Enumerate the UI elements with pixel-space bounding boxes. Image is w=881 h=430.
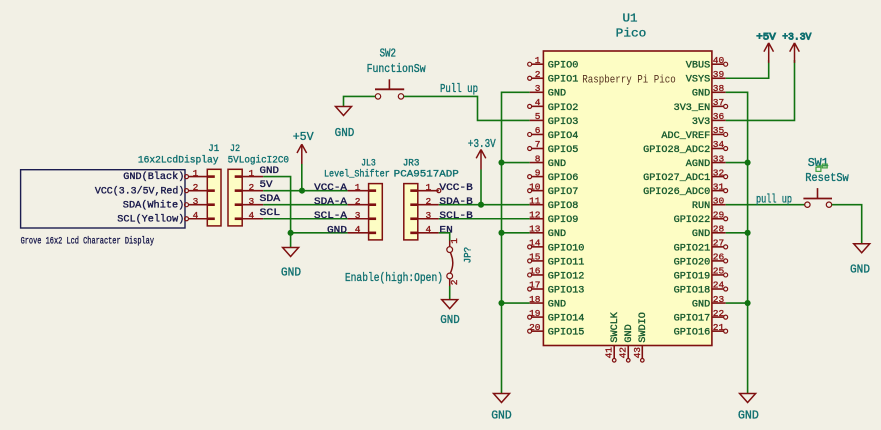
svg-text:3: 3 — [193, 196, 199, 207]
svg-text:SWDIO: SWDIO — [638, 312, 649, 343]
svg-text:43: 43 — [632, 347, 643, 359]
U1 pin 37 3V3_EN — [712, 105, 724, 107]
svg-text:GPIO21: GPIO21 — [674, 243, 711, 254]
svg-text:2: 2 — [193, 182, 199, 193]
ground symbol below J2 — [283, 248, 299, 257]
U1 pin 25 GPIO19 — [712, 274, 724, 276]
U1 pin 20 GPIO15 — [531, 330, 543, 332]
power +3.3V (top right) — [790, 43, 800, 63]
U1 pin 14 GPIO10 — [531, 246, 543, 248]
wire 3V3 to +3.3V — [726, 60, 795, 120]
connector J1 16x2LcdDisplay — [207, 169, 221, 226]
svg-text:JR3: JR3 — [403, 159, 420, 170]
svg-text:27: 27 — [713, 238, 724, 249]
svg-text:2: 2 — [449, 279, 460, 285]
JL3 pin 2 — [348, 204, 369, 206]
svg-text:17: 17 — [529, 280, 540, 291]
svg-text:29: 29 — [713, 209, 725, 220]
U1 pin 10 GPIO7 — [531, 190, 543, 192]
svg-text:23: 23 — [713, 294, 725, 305]
U1 pin 38 GND — [712, 91, 726, 93]
svg-text:GPIO26_ADC0: GPIO26_ADC0 — [643, 187, 710, 198]
svg-text:GPIO20: GPIO20 — [674, 257, 711, 268]
JR3 pin 4 — [418, 232, 439, 234]
svg-text:41: 41 — [604, 347, 615, 359]
svg-text:AGND: AGND — [686, 159, 710, 170]
JL3 pin 1 — [348, 190, 369, 192]
U1 pin 19 GPIO14 — [531, 316, 543, 318]
svg-text:GND: GND — [548, 89, 566, 100]
svg-text:GPIO5: GPIO5 — [548, 145, 579, 156]
U1 pin 30 RUN — [712, 204, 726, 206]
svg-text:J1: J1 — [208, 144, 219, 155]
J1 pin 2 — [189, 190, 207, 192]
svg-text:GPIO11: GPIO11 — [548, 257, 585, 268]
svg-text:20: 20 — [529, 322, 541, 333]
ground symbol below SW1 — [854, 244, 870, 253]
svg-text:4: 4 — [355, 224, 361, 235]
wire jumper to gnd — [449, 286, 451, 300]
junction GND/JL3 — [288, 230, 294, 236]
U1 pin 13 GND — [530, 232, 544, 234]
wire U1 pin3 GND — [502, 92, 530, 393]
svg-text:18: 18 — [529, 294, 541, 305]
right GND bus — [726, 92, 748, 393]
svg-text:GPIO1: GPIO1 — [548, 75, 579, 86]
svg-text:GPIO17: GPIO17 — [674, 314, 711, 325]
svg-text:2: 2 — [249, 182, 255, 193]
svg-text:3: 3 — [249, 196, 255, 207]
wire SW2 to GND — [344, 96, 376, 106]
svg-text:SW2: SW2 — [380, 47, 396, 61]
wire EN to jumper — [439, 233, 450, 241]
JR3 pin1 open circle — [437, 189, 441, 193]
svg-text:25: 25 — [713, 266, 725, 277]
svg-text:SCL: SCL — [260, 208, 281, 219]
U1 pin 35 ADC_VREF — [712, 133, 724, 135]
svg-text:GPIO2: GPIO2 — [548, 103, 579, 114]
wire RUN to SW1 — [726, 204, 805, 206]
svg-text:GPIO16: GPIO16 — [674, 328, 711, 339]
svg-text:3: 3 — [426, 210, 432, 221]
ground symbol bottom right — [740, 394, 756, 403]
U1 pin 32 GPIO27_ADC1 — [712, 176, 724, 178]
LCD display graphic box — [21, 170, 185, 228]
J2 pin 3 — [242, 204, 263, 206]
IC U1 Raspberry Pi Pico — [543, 51, 712, 346]
U1 pin 18 GND — [530, 302, 544, 304]
U1 pin 24 GPIO18 — [712, 288, 724, 290]
svg-text:EN: EN — [439, 225, 452, 236]
svg-text:GND(Black): GND(Black) — [123, 171, 184, 183]
U1 pin 34 GPIO28_ADC2 — [712, 148, 724, 150]
svg-text:Raspberry Pi Pico: Raspberry Pi Pico — [582, 74, 675, 86]
svg-text:+3.3V: +3.3V — [782, 32, 812, 44]
svg-text:16x2LcdDisplay: 16x2LcdDisplay — [138, 154, 219, 166]
svg-text:GND: GND — [692, 229, 710, 240]
svg-text:1: 1 — [449, 238, 460, 244]
U1 pin 6 GPIO4 — [531, 133, 543, 135]
svg-text:GND: GND — [335, 126, 355, 140]
svg-text:33: 33 — [713, 153, 725, 164]
JR3 pin 2 — [418, 204, 439, 206]
wire 5V row — [263, 190, 347, 192]
svg-text:SWCLK: SWCLK — [610, 312, 621, 343]
svg-text:37: 37 — [713, 97, 724, 108]
U1 pin 12 GPIO9 — [530, 218, 544, 220]
svg-text:5VLogicI2C0: 5VLogicI2C0 — [228, 154, 289, 166]
svg-text:3V3_EN: 3V3_EN — [674, 103, 711, 114]
U1 pin 17 GPIO13 — [531, 288, 543, 290]
U1 pin 41 SWCLK — [613, 346, 615, 359]
svg-text:39: 39 — [713, 69, 725, 80]
svg-text:pull up: pull up — [756, 193, 792, 207]
svg-text:SDA(White): SDA(White) — [123, 199, 185, 211]
connector JL3 Level_Shifter — [369, 184, 383, 240]
svg-text:GND: GND — [491, 409, 512, 423]
JL3 pin 3 — [348, 218, 369, 220]
svg-text:GPIO19: GPIO19 — [674, 271, 711, 282]
svg-text:1: 1 — [535, 55, 541, 66]
U1 pin 28 GND — [712, 232, 726, 234]
svg-text:Pico: Pico — [616, 27, 647, 41]
jumper JP? open — [449, 241, 451, 247]
svg-text:42: 42 — [618, 347, 629, 359]
junction pin8 GND bus — [498, 160, 504, 166]
ground symbol below SW2 — [336, 107, 352, 116]
svg-text:1: 1 — [193, 168, 199, 179]
svg-text:Level_Shifter: Level_Shifter — [324, 168, 390, 180]
svg-text:4: 4 — [535, 97, 541, 108]
U1 pin 42 GND — [627, 346, 629, 359]
ground symbol bottom left — [494, 394, 510, 403]
svg-text:GND: GND — [281, 265, 301, 279]
svg-text:34: 34 — [713, 139, 725, 150]
U1 pin 9 GPIO6 — [531, 176, 543, 178]
svg-text:1: 1 — [249, 168, 255, 179]
U1 pin 1 GPIO0 — [531, 63, 543, 65]
svg-text:36: 36 — [713, 111, 725, 122]
svg-text:40: 40 — [713, 55, 725, 66]
U1 pin 39 VSYS — [712, 77, 726, 79]
svg-text:SDA: SDA — [260, 194, 281, 205]
U1 pin 3 GND — [530, 91, 544, 93]
U1 pin 36 3V3 — [712, 119, 726, 121]
U1 pin 22 GPIO17 — [712, 316, 724, 318]
U1 pin 40 VBUS — [712, 63, 724, 65]
svg-text:3: 3 — [355, 210, 361, 221]
svg-text:38: 38 — [713, 83, 725, 94]
svg-text:2: 2 — [355, 196, 361, 207]
wire pin23 GND — [726, 302, 748, 304]
svg-text:GND: GND — [692, 299, 710, 310]
svg-text:12: 12 — [529, 209, 541, 220]
U1 pin 26 GPIO20 — [712, 260, 724, 262]
J2 pin 4 — [242, 218, 263, 220]
svg-text:GND: GND — [738, 409, 759, 423]
svg-text:ResetSw: ResetSw — [805, 171, 849, 185]
junction AGND bus — [745, 160, 751, 166]
junction pin23 GND bus — [745, 300, 751, 306]
svg-text:J2: J2 — [230, 144, 240, 155]
svg-text:35: 35 — [713, 125, 725, 136]
svg-text:+3.3V: +3.3V — [468, 137, 496, 151]
wire J2.1 GND to GND symbol — [263, 177, 290, 248]
svg-text:5V: 5V — [260, 180, 273, 191]
wire U1 pin13 GND — [502, 232, 530, 234]
svg-text:14: 14 — [529, 238, 541, 249]
U1 pin 15 GPIO11 — [531, 260, 543, 262]
U1 pin 7 GPIO5 — [531, 148, 543, 150]
svg-text:GPIO7: GPIO7 — [548, 187, 579, 198]
svg-text:3V3: 3V3 — [692, 117, 710, 128]
svg-text:4: 4 — [193, 210, 199, 221]
svg-text:6: 6 — [535, 125, 541, 136]
svg-text:GND: GND — [548, 159, 566, 170]
svg-text:22: 22 — [713, 308, 725, 319]
svg-text:GND: GND — [440, 313, 460, 327]
ground symbol below jumper — [442, 300, 458, 309]
svg-text:GPIO9: GPIO9 — [548, 215, 579, 226]
U1 pin 43 SWDIO — [641, 346, 643, 359]
svg-text:SCL(Yellow): SCL(Yellow) — [117, 213, 184, 225]
svg-text:VSYS: VSYS — [686, 75, 710, 86]
U1 pin 11 GPIO8 — [530, 204, 544, 206]
svg-text:9: 9 — [535, 167, 541, 178]
svg-text:Pull up: Pull up — [440, 82, 478, 96]
U1 pin 29 GPIO22 — [712, 218, 724, 220]
svg-text:10: 10 — [529, 181, 541, 192]
svg-text:GPIO0: GPIO0 — [548, 61, 579, 72]
junction +5V — [299, 188, 305, 194]
power +3.3V (middle) — [476, 150, 486, 170]
svg-text:VCC-B: VCC-B — [439, 183, 472, 194]
wire SCL row — [263, 218, 347, 220]
svg-text:26: 26 — [713, 252, 725, 263]
wire JL3.4 GND — [291, 232, 348, 234]
wire AGND — [726, 162, 748, 164]
svg-text:GPIO15: GPIO15 — [548, 328, 585, 339]
svg-text:5: 5 — [535, 111, 541, 122]
svg-text:28: 28 — [713, 224, 725, 235]
svg-text:1: 1 — [426, 182, 432, 193]
svg-text:24: 24 — [713, 280, 725, 291]
J2 pin 1 — [242, 176, 263, 178]
J2 pin 2 — [242, 190, 263, 192]
U1 pin 2 GPIO1 — [531, 77, 543, 79]
svg-text:Enable(high:Open): Enable(high:Open) — [345, 271, 443, 285]
svg-text:30: 30 — [713, 195, 725, 206]
svg-text:11: 11 — [529, 195, 541, 206]
junction +3.3V/SDA-B — [478, 202, 484, 208]
J1 pin 1 — [189, 176, 207, 178]
svg-text:VBUS: VBUS — [686, 61, 710, 72]
svg-text:GND: GND — [548, 229, 566, 240]
svg-text:JL3: JL3 — [361, 159, 376, 170]
U1 pin 16 GPIO12 — [531, 274, 543, 276]
svg-text:PCA9517ADP: PCA9517ADP — [394, 169, 459, 180]
svg-text:GND: GND — [624, 324, 635, 342]
svg-text:ADC_VREF: ADC_VREF — [661, 131, 710, 142]
svg-text:+5V: +5V — [293, 130, 315, 144]
wire U1 pin18 GND — [502, 302, 530, 304]
svg-text:SCL-B: SCL-B — [439, 211, 472, 222]
svg-text:GPIO12: GPIO12 — [548, 271, 585, 282]
wire SW2 to GPIO3 (Pull up) — [404, 96, 530, 120]
svg-text:7: 7 — [535, 139, 541, 150]
svg-text:JP?: JP? — [464, 247, 475, 264]
svg-text:19: 19 — [529, 308, 541, 319]
svg-text:SDA-A: SDA-A — [314, 197, 347, 208]
svg-text:13: 13 — [529, 224, 541, 235]
JR3 pin 1 — [418, 190, 439, 192]
connector J2 5VLogicI2C0 — [228, 169, 242, 226]
svg-text:GPIO14: GPIO14 — [548, 314, 585, 325]
svg-text:+5V: +5V — [756, 32, 776, 44]
U1 pin 33 AGND — [712, 162, 726, 164]
svg-text:8: 8 — [535, 153, 541, 164]
svg-text:31: 31 — [713, 181, 725, 192]
svg-text:Grove 16x2 Lcd Character Displ: Grove 16x2 Lcd Character Display — [21, 236, 154, 248]
junction pin18 GND bus — [498, 300, 504, 306]
power +5V (left) — [297, 144, 307, 164]
svg-text:3: 3 — [535, 83, 541, 94]
svg-text:GPIO10: GPIO10 — [548, 243, 585, 254]
svg-text:GPIO4: GPIO4 — [548, 131, 579, 142]
svg-text:2: 2 — [535, 69, 541, 80]
U1 pin 31 GPIO26_ADC0 — [712, 190, 724, 192]
svg-text:GPIO28_ADC2: GPIO28_ADC2 — [643, 145, 710, 156]
svg-text:2: 2 — [426, 196, 432, 207]
JL3 pin 4 — [348, 232, 369, 234]
wire SDA row — [263, 204, 347, 206]
wire pin28 GND — [726, 232, 748, 234]
wire U1 pin8 GND — [502, 162, 530, 164]
U1 pin 23 GND — [712, 302, 726, 304]
svg-text:SDA-B: SDA-B — [439, 197, 472, 208]
JR3 pin 3 — [418, 218, 439, 220]
svg-text:RUN: RUN — [692, 201, 710, 212]
svg-text:SCL-A: SCL-A — [314, 211, 347, 222]
J1 pin 4 — [189, 218, 207, 220]
svg-text:GND: GND — [692, 89, 710, 100]
svg-text:VCC(3.3/5V,Red): VCC(3.3/5V,Red) — [95, 185, 184, 197]
svg-text:GND: GND — [260, 166, 280, 177]
wire SDA-B to GPIO8 — [439, 204, 530, 206]
svg-text:GPIO6: GPIO6 — [548, 173, 579, 184]
svg-text:GPIO27_ADC1: GPIO27_ADC1 — [643, 173, 710, 184]
svg-text:4: 4 — [426, 224, 432, 235]
wire SW1 to GND — [832, 205, 862, 244]
wire SCL-B to GPIO9 — [439, 218, 530, 220]
U1 pin 21 GPIO16 — [712, 330, 724, 332]
U1 pin 4 GPIO2 — [531, 105, 543, 107]
wire VSYS to +5V — [726, 60, 769, 78]
svg-text:VCC-A: VCC-A — [314, 183, 347, 194]
svg-text:16: 16 — [529, 266, 541, 277]
svg-text:1: 1 — [355, 182, 361, 193]
svg-text:U1: U1 — [623, 12, 638, 26]
svg-text:GND: GND — [548, 299, 566, 310]
svg-text:32: 32 — [713, 167, 725, 178]
power +5V (top right) — [764, 43, 774, 63]
svg-text:GND: GND — [850, 262, 870, 276]
svg-text:GPIO3: GPIO3 — [548, 117, 579, 128]
svg-text:21: 21 — [713, 322, 725, 333]
svg-text:GND: GND — [327, 225, 347, 236]
connector JR3 PCA9517ADP — [404, 184, 418, 240]
svg-text:FunctionSw: FunctionSw — [367, 62, 427, 76]
svg-text:GPIO8: GPIO8 — [548, 201, 579, 212]
svg-text:4: 4 — [249, 210, 255, 221]
junction pin13 GND bus — [498, 230, 504, 236]
svg-text:GPIO18: GPIO18 — [674, 285, 711, 296]
svg-text:15: 15 — [529, 252, 541, 263]
U1 pin 27 GPIO21 — [712, 246, 724, 248]
svg-text:GPIO22: GPIO22 — [674, 215, 711, 226]
svg-text:GPIO13: GPIO13 — [548, 285, 585, 296]
U1 pin 5 GPIO3 — [530, 119, 544, 121]
J1 pin 3 — [189, 204, 207, 206]
junction pin28 GND bus — [745, 230, 751, 236]
U1 pin 8 GND — [530, 162, 544, 164]
